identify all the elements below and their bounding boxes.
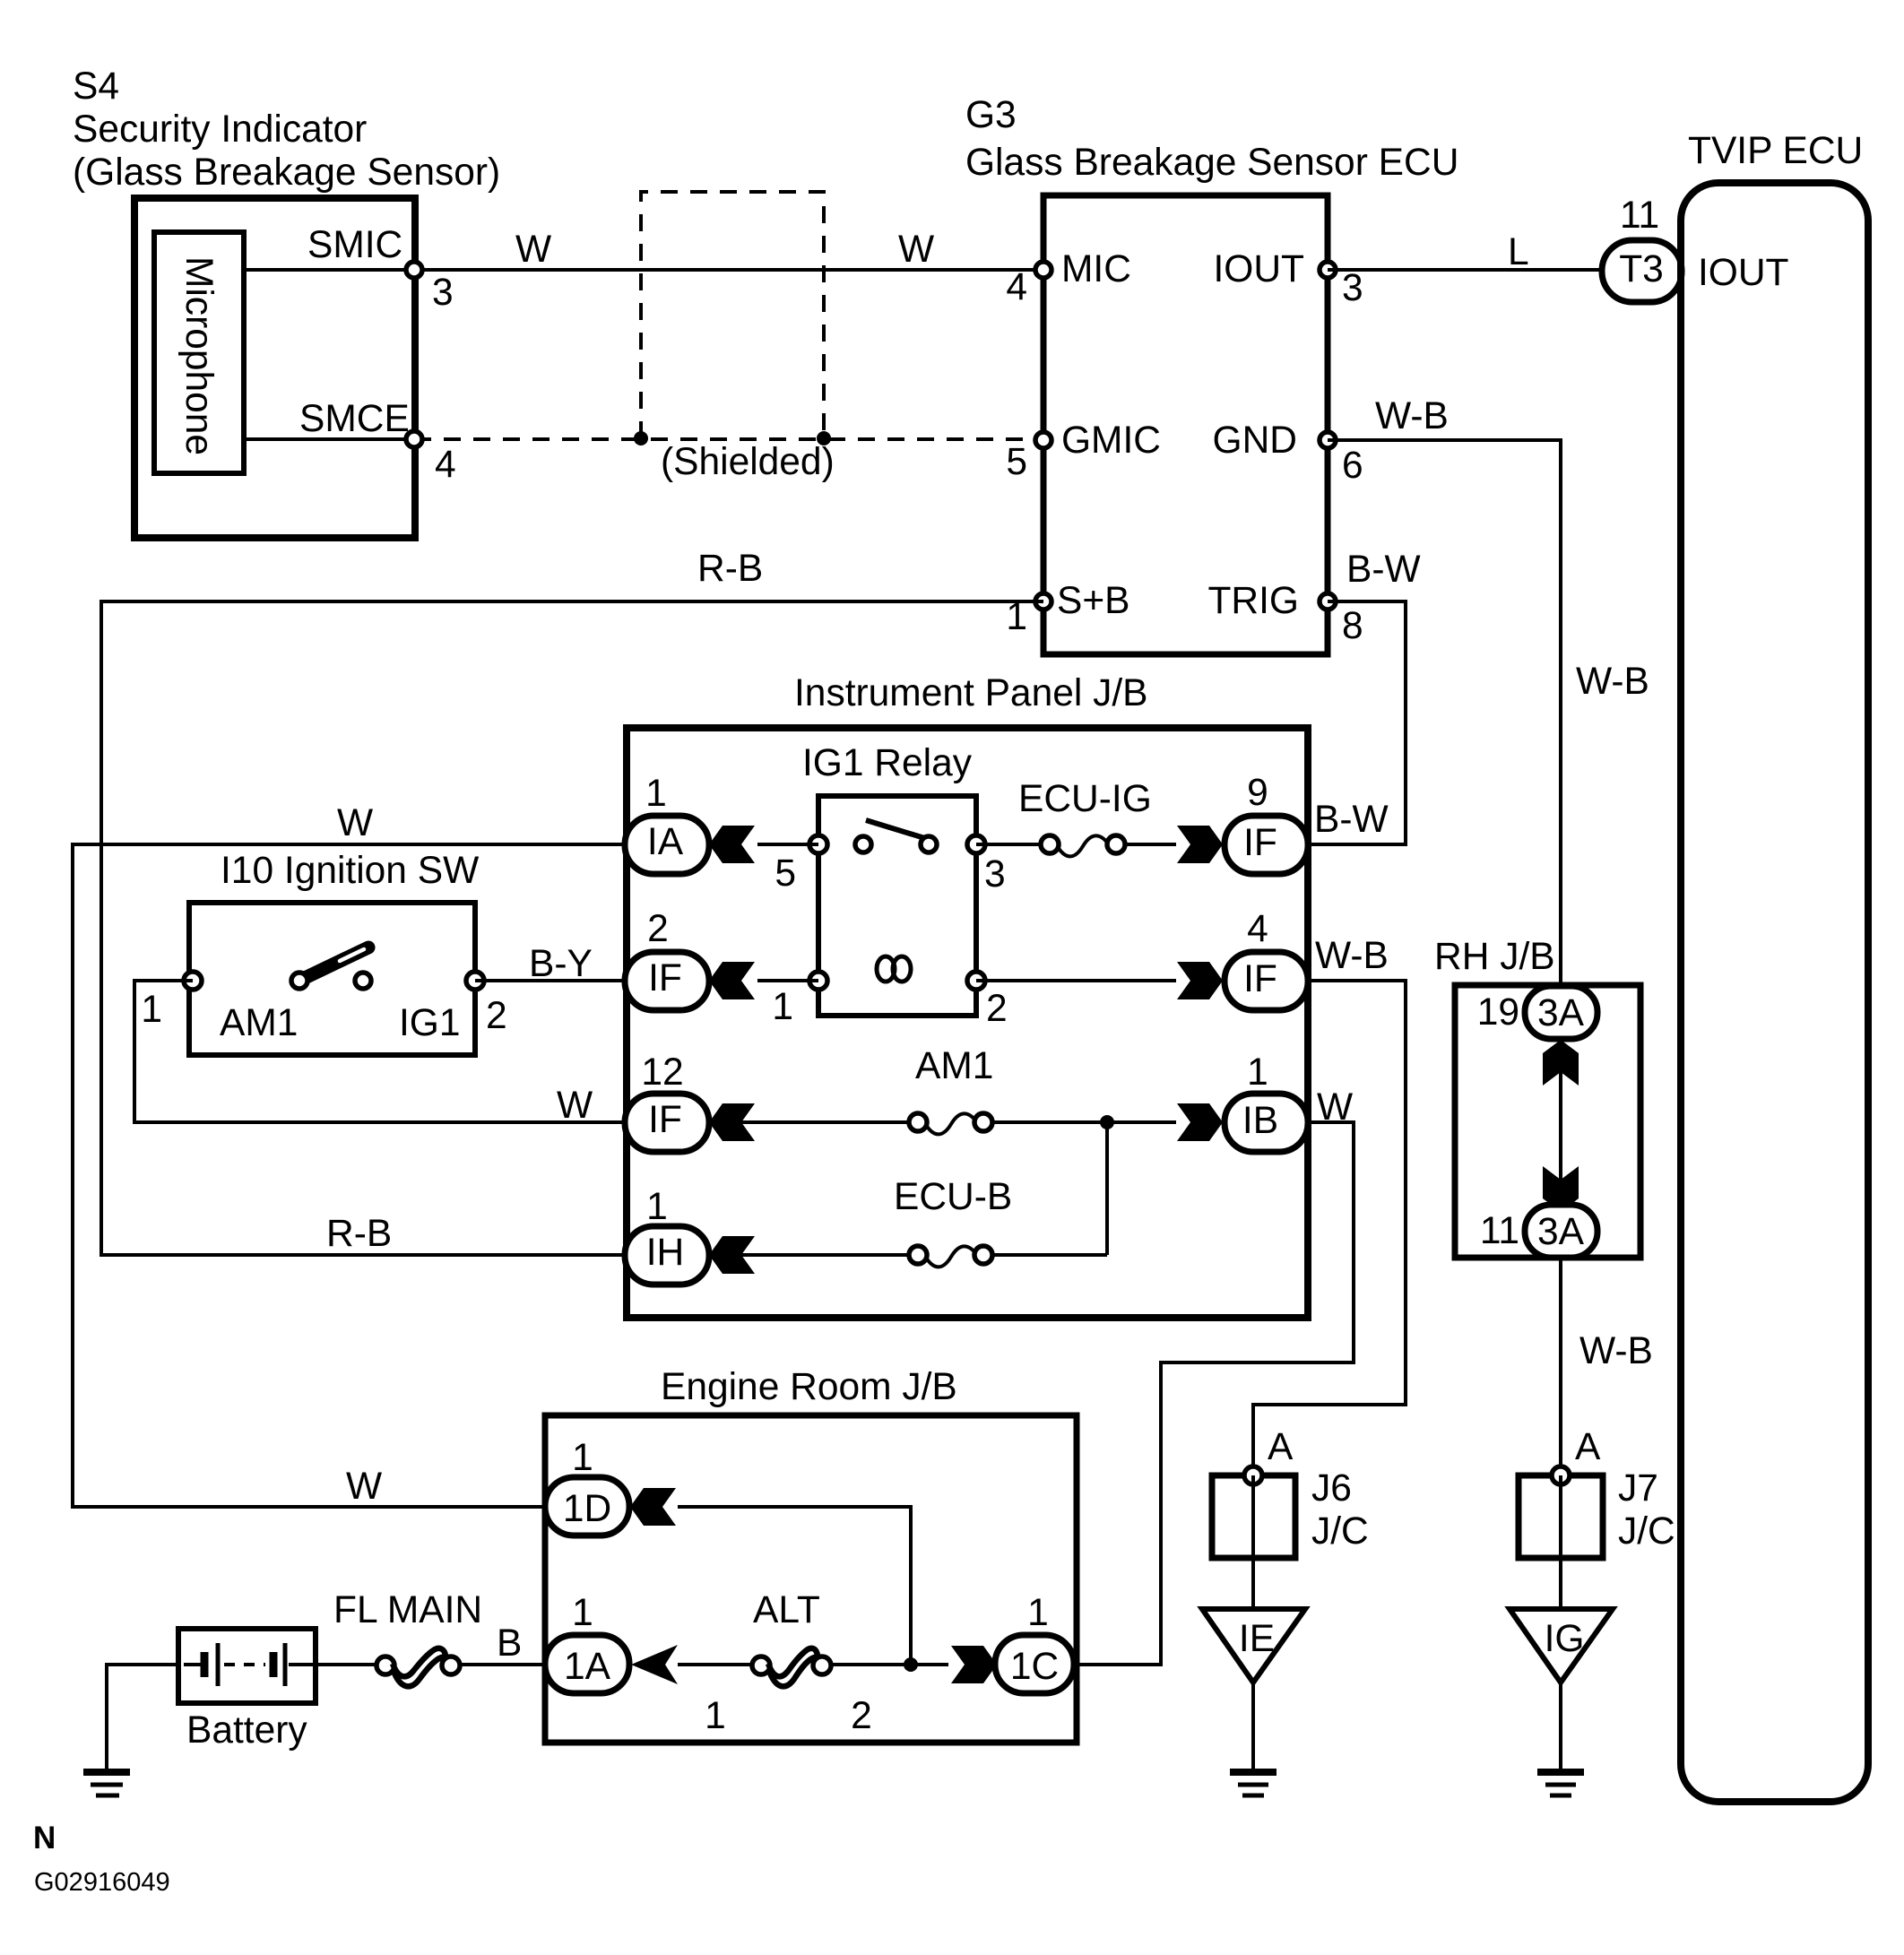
wire ALT to 1C arrow bbox=[831, 1663, 948, 1666]
TVIP ECU box bbox=[1681, 130, 1868, 1802]
wire W-B from 3A to J7 bbox=[1561, 1258, 1653, 1467]
relay contact circle left bbox=[855, 836, 871, 852]
svg-text:IB: IB bbox=[1242, 1100, 1278, 1142]
svg-text:B: B bbox=[497, 1622, 522, 1665]
svg-text:IG1 Relay: IG1 Relay bbox=[802, 742, 973, 784]
svg-text:GND: GND bbox=[1213, 420, 1297, 462]
svg-text:1: 1 bbox=[1027, 1592, 1049, 1634]
fuse ECU-IG bbox=[1018, 778, 1152, 856]
wire relay pin3 to ECU-IG fuse bbox=[976, 843, 1041, 846]
arrow at 1D bbox=[630, 1488, 676, 1526]
wire 1A arrow to ALT bbox=[678, 1663, 752, 1666]
svg-text:(Glass Breakage Sensor): (Glass Breakage Sensor) bbox=[73, 151, 500, 194]
wire J7 to IG triangle bbox=[1559, 1475, 1562, 1609]
wire FL MAIN to 1A bbox=[460, 1663, 545, 1666]
pin 4 MIC bbox=[1006, 248, 1131, 308]
svg-text:1D: 1D bbox=[563, 1488, 611, 1530]
wire L IOUT to T3 bbox=[1328, 231, 1602, 273]
wire IE to ground bbox=[1251, 1683, 1255, 1772]
wire IF2 arrow to relay coil pin1 bbox=[757, 979, 818, 982]
svg-text:S+B: S+B bbox=[1057, 580, 1130, 622]
svg-text:IF: IF bbox=[648, 957, 682, 999]
svg-text:B-Y: B-Y bbox=[529, 943, 593, 985]
ground triangle IG bbox=[1510, 1609, 1613, 1683]
svg-text:TRIG: TRIG bbox=[1207, 580, 1299, 622]
junction dot on ALT wire bbox=[904, 1657, 918, 1672]
svg-text:1C: 1C bbox=[1010, 1646, 1059, 1688]
arrow at IF2 bbox=[709, 962, 755, 999]
svg-text:1: 1 bbox=[572, 1437, 593, 1479]
connector 1A pin 1 bbox=[545, 1592, 629, 1693]
battery box bbox=[178, 1629, 316, 1703]
svg-text:1: 1 bbox=[1247, 1051, 1268, 1094]
svg-text:2: 2 bbox=[986, 988, 1008, 1030]
svg-text:3: 3 bbox=[1342, 267, 1363, 309]
wire SMCE internal bbox=[244, 437, 414, 441]
arrow at IH bbox=[709, 1236, 755, 1274]
I10 ignition switch box bbox=[189, 903, 475, 1055]
wire battery negative to ground bbox=[107, 1665, 178, 1772]
relay coil pin 2 bbox=[967, 972, 1008, 1030]
wire W from IA to Engine Room 1D bbox=[73, 802, 625, 1508]
svg-text:2: 2 bbox=[486, 995, 507, 1037]
connector T3 bbox=[1602, 195, 1682, 302]
svg-text:IA: IA bbox=[647, 821, 684, 863]
svg-text:A: A bbox=[1575, 1426, 1601, 1468]
ignition switch lever bbox=[307, 947, 368, 977]
connector IF pin 12 bbox=[625, 1051, 709, 1152]
shield junction dot right bbox=[817, 431, 831, 445]
wire W-B from GND bbox=[1328, 395, 1649, 986]
svg-text:AM1: AM1 bbox=[220, 1002, 298, 1044]
wire W ignition pin1 to IF12 bbox=[134, 981, 625, 1127]
relay coil pin 1 bbox=[772, 972, 827, 1028]
wire shielded SMCE to GMIC (dashed) bbox=[414, 437, 1043, 441]
svg-text:IG: IG bbox=[1545, 1618, 1585, 1660]
svg-text:IF: IF bbox=[1243, 822, 1277, 864]
arrow at 1C bbox=[951, 1646, 997, 1683]
svg-text:W: W bbox=[346, 1466, 382, 1508]
wire ECU-IG fuse to IF9 arrow bbox=[1125, 843, 1176, 846]
svg-text:(Shielded): (Shielded) bbox=[661, 441, 835, 483]
pin 4 SMCE bbox=[299, 398, 456, 486]
svg-text:11: 11 bbox=[1480, 1210, 1519, 1252]
connector 3A pin 19 bbox=[1477, 986, 1597, 1039]
G3 glass breakage sensor ECU box bbox=[1043, 195, 1328, 654]
svg-text:AM1: AM1 bbox=[915, 1045, 993, 1087]
svg-text:Instrument Panel J/B: Instrument Panel J/B bbox=[794, 672, 1148, 714]
svg-text:T3: T3 bbox=[1619, 248, 1664, 290]
svg-text:I10 Ignition SW: I10 Ignition SW bbox=[221, 850, 479, 892]
wire IH to ECU-B fuse bbox=[709, 1253, 910, 1257]
J6 junction connector box bbox=[1212, 1467, 1369, 1558]
svg-text:W: W bbox=[898, 229, 934, 271]
connector IA pin 1 bbox=[625, 773, 709, 874]
wire IG to ground bbox=[1559, 1683, 1562, 1772]
wire relay coil pin2 to IF4 arrow bbox=[976, 979, 1176, 982]
ground symbol battery bbox=[83, 1772, 130, 1795]
svg-text:Glass Breakage Sensor ECU: Glass Breakage Sensor ECU bbox=[965, 142, 1458, 184]
fusible link ALT bbox=[705, 1589, 872, 1737]
wire R-B from S+B to IH bbox=[101, 548, 1043, 1255]
pin 1 S+B bbox=[1006, 580, 1129, 638]
relay contact circle right bbox=[921, 836, 937, 852]
ground symbol IG bbox=[1537, 1772, 1584, 1795]
arrow at IF9 bbox=[1177, 826, 1223, 863]
svg-text:IH: IH bbox=[646, 1232, 685, 1274]
pin 3 IOUT bbox=[1213, 248, 1363, 309]
svg-text:J6: J6 bbox=[1311, 1467, 1352, 1510]
svg-text:W: W bbox=[515, 229, 551, 271]
wire B-W from TRIG bbox=[1308, 549, 1421, 844]
svg-text:W-B: W-B bbox=[1375, 395, 1449, 437]
junction dot AM1/ECU-B bbox=[1100, 1115, 1114, 1129]
svg-text:ECU-B: ECU-B bbox=[894, 1176, 1012, 1218]
svg-text:J7: J7 bbox=[1618, 1467, 1658, 1510]
svg-text:ALT: ALT bbox=[753, 1589, 820, 1631]
svg-text:ECU-IG: ECU-IG bbox=[1018, 778, 1152, 820]
connector IH pin 1 bbox=[625, 1186, 709, 1285]
svg-text:RH J/B: RH J/B bbox=[1434, 936, 1555, 978]
wire between 3A connectors bbox=[1559, 1039, 1562, 1205]
svg-text:B-W: B-W bbox=[1346, 549, 1421, 591]
relay coil bbox=[877, 956, 911, 982]
wire battery to FL MAIN bbox=[316, 1663, 376, 1666]
svg-text:W-B: W-B bbox=[1576, 661, 1649, 703]
svg-text:N: N bbox=[33, 1821, 56, 1856]
svg-text:1: 1 bbox=[141, 989, 162, 1031]
G3 component label bbox=[965, 94, 1458, 184]
svg-text:A: A bbox=[1268, 1426, 1294, 1468]
ignition switch pin 2 bbox=[466, 972, 507, 1037]
pin A of J7 bbox=[1552, 1426, 1601, 1484]
wire IF12 to AM1 fuse bbox=[709, 1120, 910, 1124]
svg-text:W-B: W-B bbox=[1315, 935, 1389, 977]
arrow at IB bbox=[1177, 1103, 1223, 1141]
svg-text:IG1: IG1 bbox=[399, 1002, 461, 1044]
svg-text:Microphone: Microphone bbox=[177, 256, 220, 455]
svg-text:IF: IF bbox=[648, 1099, 682, 1141]
svg-text:3A: 3A bbox=[1537, 1211, 1585, 1253]
svg-text:1: 1 bbox=[772, 986, 793, 1028]
svg-text:W: W bbox=[557, 1085, 593, 1127]
connector 3A pin 11 bbox=[1480, 1205, 1597, 1258]
svg-text:9: 9 bbox=[1247, 772, 1268, 814]
Engine Room J/B box bbox=[545, 1415, 1077, 1743]
J7 junction connector box bbox=[1519, 1467, 1675, 1558]
svg-text:4: 4 bbox=[435, 444, 456, 486]
svg-text:1: 1 bbox=[572, 1592, 593, 1634]
svg-text:J/C: J/C bbox=[1618, 1510, 1675, 1553]
ignition switch contact AM1 bbox=[220, 973, 307, 1044]
wire ECU-B fuse to junction bbox=[992, 1253, 1107, 1257]
svg-text:TVIP ECU: TVIP ECU bbox=[1688, 130, 1863, 172]
ground triangle IE bbox=[1202, 1609, 1305, 1683]
svg-text:4: 4 bbox=[1247, 908, 1268, 950]
connector IB pin 1 bbox=[1225, 1051, 1308, 1152]
pin 5 GMIC bbox=[1006, 420, 1161, 483]
RH J/B box bbox=[1455, 985, 1640, 1258]
svg-text:IOUT: IOUT bbox=[1698, 252, 1789, 294]
arrow at IF4 bbox=[1177, 962, 1223, 999]
svg-text:19: 19 bbox=[1477, 991, 1519, 1034]
ignition switch contact IG1 bbox=[355, 973, 461, 1044]
connector IF pin 9 bbox=[1225, 772, 1308, 874]
svg-text:11: 11 bbox=[1620, 195, 1659, 237]
arrow at 1A bbox=[631, 1645, 678, 1684]
battery cell symbol bbox=[184, 1643, 313, 1686]
arrow down in RH J/B bbox=[1543, 1166, 1579, 1212]
svg-text:Engine Room J/B: Engine Room J/B bbox=[661, 1366, 957, 1408]
svg-text:3: 3 bbox=[432, 272, 454, 314]
pin 3 SMIC bbox=[307, 224, 454, 314]
fusible link FL MAIN bbox=[333, 1589, 482, 1686]
svg-text:G02916049: G02916049 bbox=[34, 1868, 170, 1897]
svg-text:SMIC: SMIC bbox=[307, 224, 402, 266]
svg-text:IF: IF bbox=[1243, 958, 1277, 1000]
svg-text:12: 12 bbox=[641, 1051, 683, 1094]
wire 1D arrow to ALT junction bbox=[678, 1507, 911, 1665]
svg-text:IOUT: IOUT bbox=[1213, 248, 1304, 290]
svg-text:IE: IE bbox=[1239, 1618, 1275, 1660]
svg-text:GMIC: GMIC bbox=[1061, 420, 1161, 462]
svg-text:8: 8 bbox=[1342, 605, 1363, 647]
relay pin 3 bbox=[967, 835, 1006, 895]
wire SMIC row bbox=[244, 268, 1043, 272]
arrow up in RH J/B bbox=[1543, 1040, 1579, 1086]
svg-text:2: 2 bbox=[851, 1695, 872, 1737]
svg-text:R-B: R-B bbox=[697, 548, 763, 590]
relay switch blade bbox=[866, 820, 930, 840]
wire J6 to IE triangle bbox=[1251, 1475, 1255, 1609]
svg-text:J/C: J/C bbox=[1311, 1510, 1369, 1553]
svg-text:5: 5 bbox=[1006, 441, 1027, 483]
svg-text:S4: S4 bbox=[73, 65, 119, 108]
svg-text:4: 4 bbox=[1006, 266, 1027, 308]
svg-text:5: 5 bbox=[775, 852, 796, 895]
ignition switch pin 1 bbox=[141, 972, 202, 1031]
svg-text:Battery: Battery bbox=[186, 1709, 307, 1752]
connector 1D pin 1 bbox=[545, 1437, 629, 1535]
fuse AM1 bbox=[909, 1045, 993, 1134]
svg-text:MIC: MIC bbox=[1061, 248, 1131, 290]
svg-text:1: 1 bbox=[646, 1186, 668, 1228]
svg-text:W: W bbox=[1317, 1086, 1353, 1129]
arrow at IF12 bbox=[709, 1103, 755, 1141]
S4 component label bbox=[73, 65, 500, 194]
svg-text:3A: 3A bbox=[1537, 992, 1585, 1034]
svg-text:6: 6 bbox=[1342, 445, 1363, 487]
svg-text:R-B: R-B bbox=[326, 1213, 392, 1255]
connector IF pin 4 bbox=[1225, 908, 1308, 1010]
svg-text:L: L bbox=[1508, 231, 1529, 273]
IG1 relay box bbox=[818, 796, 976, 1016]
svg-text:1A: 1A bbox=[564, 1646, 611, 1688]
pin 6 GND bbox=[1213, 420, 1363, 487]
relay pin 5 bbox=[775, 835, 827, 895]
shield dashed box bbox=[641, 192, 824, 438]
ground symbol IE bbox=[1230, 1772, 1277, 1795]
svg-text:2: 2 bbox=[647, 908, 669, 950]
svg-text:W: W bbox=[337, 802, 373, 844]
wire relay pin5 to IA arrow bbox=[757, 843, 818, 846]
svg-text:FL MAIN: FL MAIN bbox=[333, 1589, 482, 1631]
wire junction down to ECU-B fuse bbox=[1105, 1122, 1109, 1255]
connector IF pin 2 bbox=[625, 908, 709, 1010]
svg-text:Security Indicator: Security Indicator bbox=[73, 108, 367, 151]
connector 1C pin 1 bbox=[995, 1592, 1074, 1693]
svg-text:1: 1 bbox=[645, 773, 667, 815]
svg-text:B-W: B-W bbox=[1314, 799, 1389, 841]
S4 security indicator box bbox=[134, 198, 415, 538]
svg-text:W-B: W-B bbox=[1579, 1330, 1653, 1372]
microphone box bbox=[154, 232, 244, 473]
fuse ECU-B bbox=[894, 1176, 1012, 1267]
shield junction dot left bbox=[634, 431, 648, 445]
arrow at IA bbox=[709, 826, 755, 863]
wire B-Y ignition pin2 to IF2 bbox=[475, 943, 625, 985]
svg-text:SMCE: SMCE bbox=[299, 398, 410, 440]
svg-text:G3: G3 bbox=[965, 94, 1017, 136]
Instrument Panel J/B box bbox=[627, 728, 1308, 1318]
wire W from IB to 1C bbox=[1074, 1086, 1354, 1665]
svg-text:3: 3 bbox=[984, 853, 1006, 895]
pin 8 TRIG bbox=[1207, 580, 1363, 647]
pin A of J6 bbox=[1244, 1426, 1294, 1484]
svg-text:1: 1 bbox=[705, 1695, 726, 1737]
wire W-B from IF4 to J6 bbox=[1253, 935, 1406, 1467]
wire AM1 fuse to IB arrow bbox=[992, 1120, 1176, 1124]
